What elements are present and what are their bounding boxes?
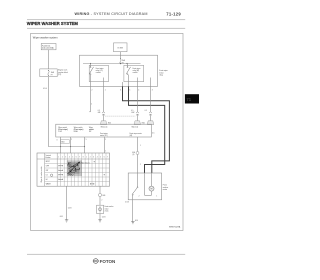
svg-text:0.5 B: 0.5 B — [68, 208, 72, 210]
node dot on bus at K1 — [90, 63, 91, 64]
fuse F2 15A — [120, 58, 121, 59]
wire W2 down from fuse box — [48, 77, 50, 147]
column header numbers — [58, 156, 108, 158]
svg-text:M: M — [150, 187, 152, 191]
inline connector on wire (ticks) — [102, 112, 105, 113]
washer bottom bar — [145, 194, 152, 196]
footer rule — [27, 253, 185, 255]
svg-text:0.5: 0.5 — [145, 110, 147, 112]
wire pin4 down to connector C2 — [137, 86, 139, 111]
svg-text:5: 5 — [129, 90, 130, 92]
washer motor M1 — [151, 173, 153, 186]
stub wire K2 lower terminal to box bottom — [128, 75, 130, 87]
row labels — [46, 161, 52, 186]
svg-text:motor: motor — [163, 188, 168, 191]
svg-text:HIGH: HIGH — [74, 131, 78, 133]
svg-text:G16: G16 — [135, 220, 138, 222]
stub wire K1 lower terminal to box bottom — [90, 75, 92, 87]
svg-text:G/B: G/B — [98, 112, 101, 114]
svg-text:1: 1 — [105, 90, 106, 92]
svg-text:4: 4 — [138, 90, 139, 92]
title rule — [27, 27, 185, 29]
wiper relay big box U1 — [80, 55, 158, 86]
wire from K1 down, ends at connector stub — [90, 86, 92, 111]
wire washer box to ground G3 — [132, 195, 134, 221]
internal bus wire — [83, 63, 141, 65]
washer motor box — [128, 173, 161, 200]
svg-text:INT: INT — [68, 162, 71, 164]
ground G1 — [65, 220, 68, 222]
svg-text:IG SW: IG SW — [118, 47, 124, 49]
node dot on bus at K2 — [126, 63, 127, 64]
svg-text:M02-2 (1): M02-2 (1) — [132, 127, 139, 129]
svg-text:WIRING - SYSTEM CIRCUIT DIAGRA: WIRING - SYSTEM CIRCUIT DIAGRAM — [75, 12, 148, 16]
table divider row label col — [56, 153, 58, 186]
wire from fusible link to fuse box — [48, 50, 50, 69]
svg-text:M04: M04 — [61, 142, 64, 144]
wire header box to table col 4 — [104, 137, 106, 153]
svg-text:Wiper washer system: Wiper washer system — [33, 35, 58, 39]
connector C2 trapezoid — [134, 121, 141, 125]
svg-text:G14: G14 — [60, 216, 63, 218]
svg-text:5: 5 — [86, 139, 87, 141]
ground G3 — [131, 222, 134, 224]
relay contact sub-box K2 — [124, 65, 144, 81]
INT variable resistor cluster — [67, 160, 82, 176]
dashed harness line — [105, 115, 135, 117]
connector C4 trapezoid — [147, 121, 154, 125]
connector C1 trapezoid — [100, 121, 107, 125]
dark wire: relay to washer (outer) — [123, 86, 170, 173]
stub wire pin 3 inside box — [150, 78, 152, 87]
wire pin1 down to connector C1 — [103, 86, 105, 111]
wire to ground G2 — [99, 214, 101, 220]
svg-text:6: 6 — [120, 90, 121, 92]
node junction — [84, 146, 85, 147]
ignition switch box B3 — [114, 43, 128, 52]
wire table to ground G1 — [66, 186, 68, 220]
contact marks in table — [58, 161, 104, 184]
feed wire from fuse W2 turning right — [49, 146, 85, 148]
svg-text:3: 3 — [152, 90, 153, 92]
svg-text:1: 1 — [105, 139, 106, 141]
svg-text:0.5: 0.5 — [131, 110, 133, 112]
small component box (check valve) — [97, 205, 104, 213]
svg-text:M02-1 (2): M02-1 (2) — [101, 127, 108, 129]
svg-text:INT: INT — [46, 170, 49, 172]
stub wire pin 6 inside box — [122, 82, 124, 86]
header rule — [27, 19, 185, 21]
section thumb tab 71 — [185, 94, 199, 103]
svg-text:check: check — [105, 210, 109, 212]
table grid columns — [61, 153, 106, 186]
svg-text:relay: relay — [159, 74, 163, 77]
svg-text:71: 71 — [186, 97, 191, 102]
washer internal wire — [144, 173, 146, 195]
wire from ignition to fuse F2 — [120, 52, 122, 59]
wire header box to table col 1 — [60, 137, 62, 153]
relay K1 contact arrow — [90, 64, 92, 67]
svg-text:E06: E06 — [132, 152, 135, 154]
inline connector circle — [98, 193, 101, 196]
wiper switch table — [37, 153, 110, 186]
wire pin4 continue below header box — [137, 137, 139, 151]
dark wire: relay to washer (inner) — [129, 86, 165, 173]
svg-text:71-129: 71-129 — [166, 12, 181, 17]
wire pin3 down to connector C4 — [150, 86, 152, 111]
fusible link box B1 — [41, 44, 56, 50]
wiper motor header box — [56, 124, 152, 137]
inline connector circle C3 — [136, 152, 139, 155]
table header row line — [37, 158, 110, 160]
svg-text:0.5: 0.5 — [152, 132, 154, 134]
svg-text:T2: T2 — [69, 174, 71, 176]
stub wire pin 1 inside box — [103, 78, 105, 87]
svg-text:0.5: 0.5 — [98, 110, 100, 112]
relay K2 contact arrow — [127, 64, 129, 67]
table grid rows — [45, 164, 110, 182]
stub wire pin 4 inside box — [137, 78, 139, 87]
ground G2 — [98, 220, 101, 222]
foton logo emblem — [93, 259, 98, 264]
svg-text:R1: R1 — [75, 171, 77, 173]
svg-text:Engine room: Engine room — [58, 70, 68, 72]
svg-text:2: 2 — [92, 90, 93, 92]
svg-text:INT: INT — [89, 131, 92, 133]
svg-text:0.5 B: 0.5 B — [102, 216, 106, 218]
svg-text:E09: E09 — [103, 195, 106, 197]
washer switch contact — [137, 173, 139, 187]
fuse F1 10A — [48, 70, 49, 71]
svg-text:WIPER WASHER SYSTEM: WIPER WASHER SYSTEM — [27, 21, 79, 26]
svg-text:SHM71129A: SHM71129A — [169, 225, 181, 228]
node junction — [60, 146, 61, 147]
washer symbol in row label — [50, 174, 52, 176]
svg-text:F7: F7 — [51, 74, 53, 76]
schematic frame — [31, 33, 183, 230]
svg-text:(F7): (F7) — [58, 74, 61, 76]
svg-text:OFF: OFF — [46, 166, 49, 168]
node: bus junction — [120, 63, 121, 64]
svg-text:MIST: MIST — [46, 161, 50, 163]
connector label box — [60, 140, 69, 144]
wire header box to table col 2 — [70, 137, 72, 153]
wire header box to table col 3 — [84, 137, 86, 153]
svg-text:Fusible link: Fusible link — [42, 45, 50, 47]
svg-text:LOW: LOW — [58, 131, 62, 133]
svg-text:Terminal: Terminal — [45, 155, 51, 157]
table divider rotated label col — [44, 153, 46, 186]
node junction — [70, 146, 71, 147]
relay contact sub-box K1 — [89, 65, 108, 81]
svg-text:0.5 B: 0.5 B — [125, 202, 129, 204]
svg-text:FOTON: FOTON — [100, 259, 116, 264]
svg-text:(Wiper deicer): (Wiper deicer) — [81, 162, 91, 164]
fuse box B2 — [40, 69, 57, 77]
wire table to washer pump branch — [99, 186, 101, 193]
